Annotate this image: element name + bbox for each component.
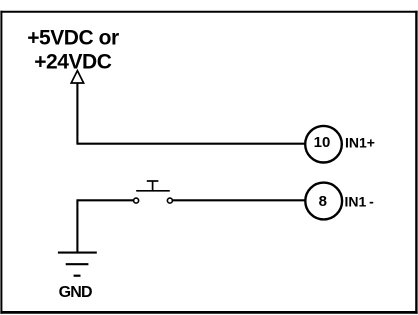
wire from left corner to pushbutton (77, 199, 133, 201)
terminal pin 10 (305, 126, 342, 163)
ground label GND (59, 284, 92, 301)
wire down to ground (76, 199, 78, 252)
svg-text:10: 10 (314, 134, 331, 151)
wire from supply arrow down (76, 83, 78, 144)
svg-text:GND: GND (59, 284, 92, 301)
wire to terminal 10 (76, 143, 304, 145)
terminal pin 8 (305, 183, 342, 220)
wire from pushbutton to terminal 8 (172, 199, 304, 201)
svg-text:+24VDC: +24VDC (34, 51, 112, 74)
pin label IN1+ (345, 135, 375, 151)
svg-text:8: 8 (319, 193, 327, 210)
supply label +5VDC or +24VDC (27, 27, 119, 74)
supply arrow symbol (71, 71, 83, 83)
svg-text:IN1 -: IN1 - (345, 194, 375, 210)
ground symbol (58, 253, 97, 276)
svg-text:IN1+: IN1+ (345, 135, 375, 151)
pin label IN1- (345, 194, 375, 210)
svg-text:+5VDC or: +5VDC or (27, 27, 119, 50)
pushbutton switch (normally open) (134, 181, 173, 203)
